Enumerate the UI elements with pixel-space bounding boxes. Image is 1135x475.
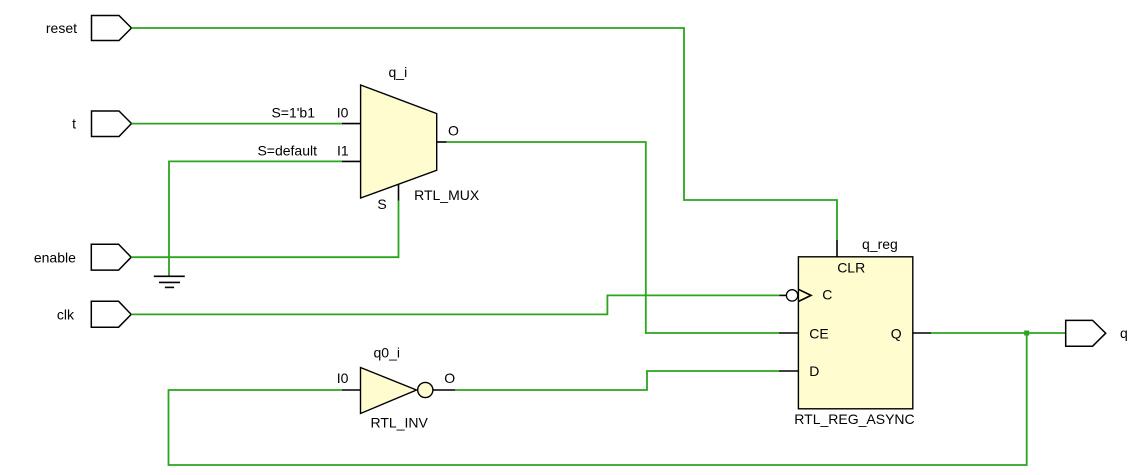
pin stub O inverter (433, 389, 455, 391)
svg-text:q: q (1120, 325, 1128, 341)
svg-text:clk: clk (57, 306, 75, 322)
svg-text:I1: I1 (337, 142, 349, 158)
wire clk net (131, 295, 779, 314)
port clk (91, 301, 131, 327)
junction q net (1024, 331, 1029, 336)
ground (154, 276, 185, 287)
svg-text:C: C (822, 287, 832, 303)
pin stub O mux (437, 141, 447, 143)
svg-text:S=default: S=default (257, 142, 317, 158)
svg-text:Q: Q (891, 325, 902, 341)
svg-text:D: D (809, 363, 819, 379)
inverter q0_i (361, 368, 417, 414)
port t (92, 111, 132, 137)
wire reset net (132, 28, 838, 240)
svg-text:q_reg: q_reg (862, 236, 898, 252)
svg-text:CE: CE (809, 325, 828, 341)
pin stub CE (779, 332, 798, 334)
svg-text:t: t (72, 115, 76, 131)
bubble inverter output (418, 382, 433, 397)
wire mux O to CE (447, 142, 779, 333)
pin stub S mux (398, 184, 400, 200)
port reset (92, 16, 132, 41)
bubble C input (786, 290, 797, 301)
pin stub C (780, 294, 787, 296)
svg-text:RTL_REG_ASYNC: RTL_REG_ASYNC (794, 411, 914, 427)
svg-text:RTL_MUX: RTL_MUX (414, 187, 480, 203)
svg-text:O: O (448, 123, 459, 139)
svg-text:q0_i: q0_i (374, 344, 400, 360)
svg-text:S: S (377, 196, 386, 212)
svg-text:RTL_INV: RTL_INV (371, 414, 429, 430)
svg-text:I0: I0 (337, 370, 349, 386)
wire inverter O to D (455, 371, 779, 390)
port q (1066, 320, 1106, 346)
pin stub I0 inverter (342, 389, 361, 391)
pin stub D (779, 370, 798, 372)
pin stub I1 mux (342, 160, 361, 162)
mux q_i (361, 85, 437, 198)
port enable (91, 244, 131, 270)
svg-text:CLR: CLR (837, 260, 865, 276)
pin stub I0 mux (342, 123, 361, 125)
svg-text:reset: reset (46, 20, 77, 36)
pin stub CLR (836, 240, 838, 257)
svg-text:q_i: q_i (389, 64, 408, 80)
wire t net (132, 123, 343, 125)
wire enable net (131, 201, 398, 258)
wire q feedback (169, 333, 1027, 465)
register q_reg RTL_REG_ASYNC (798, 257, 912, 409)
pin stub Q (913, 332, 931, 334)
clock triangle C (798, 289, 811, 301)
svg-text:I0: I0 (337, 104, 349, 120)
svg-text:enable: enable (34, 249, 76, 265)
svg-text:S=1'b1: S=1'b1 (271, 104, 315, 120)
wire q net to port (931, 332, 1066, 334)
svg-text:O: O (444, 370, 455, 386)
wire I1 net to ground (169, 161, 342, 276)
